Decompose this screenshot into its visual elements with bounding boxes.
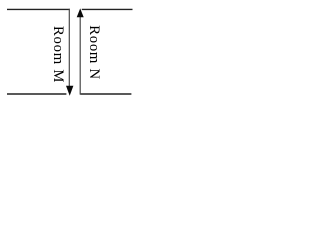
svg-text:Room N: Room N (86, 25, 102, 80)
arrowhead: upward arrow (77, 8, 84, 17)
svg-text:Room M: Room M (50, 26, 66, 83)
ceiling line of Room M (7, 8, 70, 10)
ceiling line of Room N (82, 8, 133, 10)
floor line of Room N (80, 93, 131, 95)
wire: downward air-flow shaft (68, 9, 70, 86)
floor line of Room M (7, 93, 66, 95)
arrowhead: downward arrow (66, 86, 73, 96)
wire: upward air-flow shaft (79, 17, 81, 95)
